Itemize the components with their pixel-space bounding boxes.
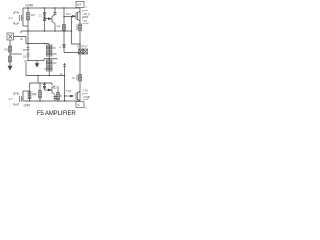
resistor R2 xyxy=(9,56,12,62)
resistor R15 xyxy=(57,93,60,100)
node -24V bottom rail xyxy=(23,100,80,102)
node feedback rail xyxy=(21,31,72,33)
wire Q2b drain drop xyxy=(52,83,55,101)
ground xyxy=(8,66,12,70)
wire input branch xyxy=(10,53,22,55)
resistor R5 xyxy=(27,48,30,50)
label Z3 value box xyxy=(83,18,89,24)
capacitor C3 xyxy=(63,65,66,67)
wire Q2 source drop xyxy=(25,62,27,76)
svg-text:10: 10 xyxy=(24,59,27,63)
resistor R8 xyxy=(47,66,53,71)
transistor Q1 2SK170 xyxy=(48,13,56,24)
svg-text:R6: R6 xyxy=(53,52,57,56)
svg-text:V-: V- xyxy=(77,103,80,107)
zener Z1 pair xyxy=(43,13,46,21)
wire C1 bottom link xyxy=(23,25,28,27)
wire Z1 column xyxy=(44,8,46,31)
svg-text:Z1: Z1 xyxy=(39,14,43,18)
wire pot column xyxy=(48,45,50,76)
svg-text:r1: r1 xyxy=(85,107,88,110)
svg-text:D1: D1 xyxy=(23,55,27,59)
svg-text:IN: IN xyxy=(20,37,23,41)
resistor R1 xyxy=(9,46,12,52)
wire Q1 drain stub xyxy=(54,8,56,15)
transistor Q4 IRFP9240 xyxy=(71,91,81,101)
svg-text:R: R xyxy=(35,92,37,96)
potentiometer P1 xyxy=(47,45,53,50)
svg-text:4.7: 4.7 xyxy=(9,97,14,101)
svg-text:Q1: Q1 xyxy=(57,24,61,28)
svg-text:1K: 1K xyxy=(53,46,57,50)
zener Z2b pair xyxy=(43,85,46,89)
terminal V- box xyxy=(76,102,84,108)
svg-text:4.7: 4.7 xyxy=(9,16,14,20)
svg-text:r1: r1 xyxy=(85,6,88,9)
wire cap column xyxy=(64,63,66,101)
wire R14 column xyxy=(39,83,41,101)
wire R7 column xyxy=(63,8,65,31)
svg-text:OUTPUT: OUTPUT xyxy=(77,45,88,49)
terminal OUT- xyxy=(83,49,87,54)
capacitor C2 bypass cluster xyxy=(14,93,23,105)
wire output tap upper xyxy=(72,17,81,45)
svg-text:K: K xyxy=(89,12,91,16)
wire Q1 source stub xyxy=(54,24,56,32)
svg-text:R1: R1 xyxy=(5,48,9,52)
node source rail left xyxy=(28,60,44,62)
svg-text:R: R xyxy=(60,94,62,98)
wire C1 left leg xyxy=(22,8,24,26)
wire C2 left leg xyxy=(22,91,24,101)
wire input column xyxy=(9,40,11,66)
ground xyxy=(35,64,38,68)
wire lower wire xyxy=(30,76,53,84)
resistor R11 0.47 xyxy=(77,24,81,31)
svg-text:F5 AMPLIFIER: F5 AMPLIFIER xyxy=(37,110,77,117)
zener Z2 xyxy=(63,45,66,48)
svg-text:K: K xyxy=(89,95,91,99)
wire R4 column xyxy=(29,83,31,101)
wire ground stub xyxy=(36,61,38,64)
svg-text:TH1: TH1 xyxy=(66,12,72,16)
resistor R4 xyxy=(28,92,31,99)
svg-text:0.56: 0.56 xyxy=(83,89,89,93)
wire input link xyxy=(14,37,27,44)
wire Q1 gate tap xyxy=(45,18,49,20)
node G gate wire xyxy=(26,44,49,46)
svg-text:Q2: Q2 xyxy=(53,86,57,90)
connector J1 input jack xyxy=(7,33,14,40)
svg-text:R5: R5 xyxy=(23,48,27,52)
svg-text:TH2: TH2 xyxy=(66,89,72,93)
svg-text:R: R xyxy=(73,76,75,80)
node source rail right xyxy=(44,59,58,61)
wire Q4 gate line xyxy=(65,95,71,97)
resistor R3 xyxy=(27,13,30,21)
node +24V top rail xyxy=(23,7,80,9)
terminal V+ box xyxy=(76,2,84,9)
wire R15 column xyxy=(57,86,59,101)
svg-text:P2: P2 xyxy=(53,61,57,65)
wire R3 column xyxy=(27,8,29,31)
svg-text:Z3: Z3 xyxy=(84,19,88,23)
svg-text:R9: R9 xyxy=(84,12,88,16)
resistor R7 xyxy=(63,25,66,31)
terminal OUT+ xyxy=(79,49,83,54)
label R10 value box xyxy=(83,94,89,100)
svg-text:V+: V+ xyxy=(77,3,81,7)
capacitor C1 bypass cluster xyxy=(14,12,23,24)
resistor R14 xyxy=(39,91,42,99)
svg-text:+24V: +24V xyxy=(25,4,34,8)
transistor Q3 IRFP240 xyxy=(73,11,81,21)
wire zener column xyxy=(64,31,80,53)
label R9 value box xyxy=(83,11,89,17)
svg-text:-24V: -24V xyxy=(23,104,31,108)
diode D1 xyxy=(27,54,30,56)
svg-text:Z: Z xyxy=(60,45,62,49)
transistor Q2 2SJ74 xyxy=(48,86,56,99)
wire Q3 gate line xyxy=(64,16,73,18)
wire right trunk xyxy=(79,8,81,101)
wire C2 top link xyxy=(23,90,30,92)
potentiometer P2 xyxy=(47,60,53,65)
svg-text:P: P xyxy=(44,67,46,71)
junction dots xyxy=(27,7,28,8)
node lower rail xyxy=(26,75,65,77)
resistor R6 xyxy=(47,51,53,56)
svg-text:R3: R3 xyxy=(31,13,35,17)
resistor R12 0.47 xyxy=(77,75,81,82)
wire Q2b gate drop xyxy=(45,83,49,90)
wire bias column xyxy=(27,31,29,61)
